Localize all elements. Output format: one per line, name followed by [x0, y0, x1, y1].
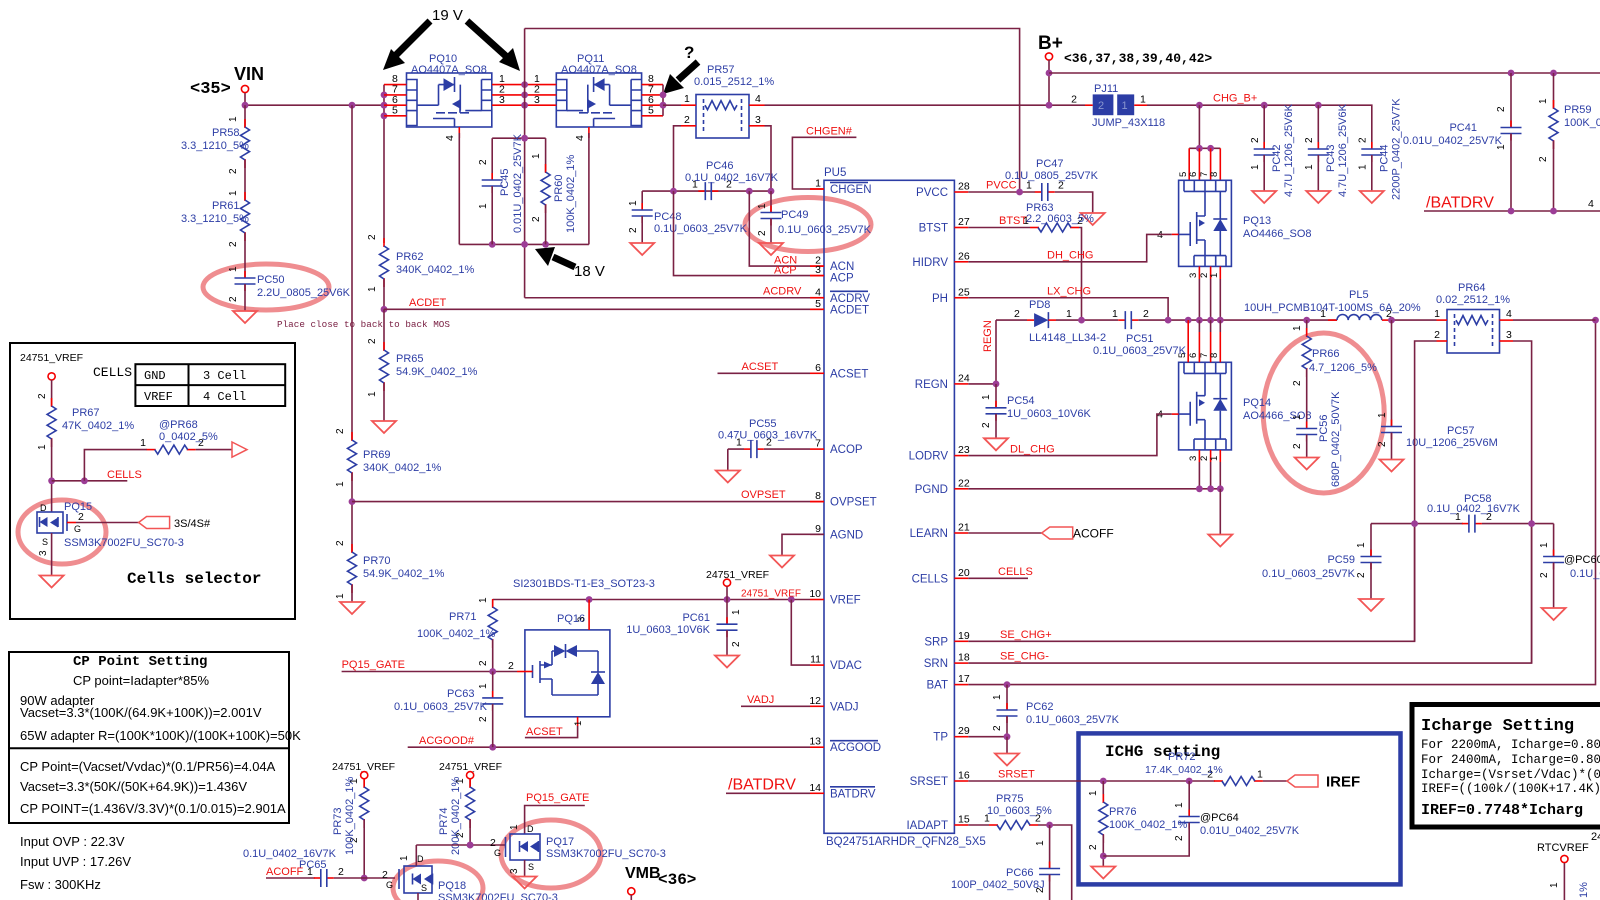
svg-text:PC41: PC41 — [1449, 122, 1477, 134]
wire PR57 pin4 to PJ11 — [765, 104, 1086, 106]
svg-text:1: 1 — [1356, 542, 1367, 548]
svg-text:21: 21 — [958, 522, 970, 534]
svg-text:PC61: PC61 — [682, 612, 710, 624]
svg-text:SRP: SRP — [924, 636, 948, 648]
svg-text:0.1U_0603_25V7K: 0.1U_0603_25V7K — [1093, 345, 1187, 357]
svg-text:1: 1 — [1292, 325, 1303, 331]
svg-text:5: 5 — [1177, 353, 1188, 358]
resistor PR66 — [1292, 320, 1377, 386]
wire PR70-gnd — [351, 585, 353, 602]
transistor PQ13 — [1157, 180, 1311, 266]
wire PQ11 to PR57 — [663, 104, 681, 106]
capacitor PC61 — [626, 600, 742, 668]
pin 25 PH — [932, 286, 970, 305]
svg-text:3S/4S#: 3S/4S# — [174, 518, 211, 530]
pin 6 ACSET — [810, 362, 868, 381]
svg-text:8: 8 — [1209, 353, 1220, 358]
svg-text:ACOFF: ACOFF — [266, 866, 304, 878]
svg-text:D: D — [40, 503, 47, 513]
wire VIN vertical — [244, 93, 246, 105]
svg-text:LX_CHG: LX_CHG — [1047, 286, 1091, 298]
svg-text:TP: TP — [933, 732, 948, 744]
svg-text:CHG_B+: CHG_B+ — [1213, 93, 1257, 105]
pin 19 SRP — [924, 630, 969, 649]
pin 4 ACDRV — [810, 286, 870, 305]
svg-text:4: 4 — [815, 286, 821, 298]
wire CELLS label — [52, 480, 128, 482]
svg-text:AO4407A_SO8: AO4407A_SO8 — [411, 64, 487, 76]
wire LEARN to ACOFF flag — [968, 527, 1113, 541]
svg-text:/BATDRV: /BATDRV — [1426, 195, 1494, 212]
svg-text:2: 2 — [1014, 308, 1020, 320]
svg-text:GND: GND — [144, 369, 166, 383]
svg-text:PR65: PR65 — [396, 353, 424, 365]
wire ACN — [749, 191, 810, 266]
resistor PR57 shunt — [681, 64, 774, 138]
capacitor PC63 — [394, 672, 503, 748]
svg-text:For 2400mA, Icharge=0.80: For 2400mA, Icharge=0.80 — [1421, 753, 1600, 767]
resistor PR73 — [332, 761, 395, 881]
svg-text:15: 15 — [958, 814, 970, 826]
svg-text:IREF=0.7748*Icharg: IREF=0.7748*Icharg — [1421, 802, 1583, 819]
svg-text:47K_0402_1%: 47K_0402_1% — [62, 420, 134, 432]
svg-text:PR75: PR75 — [996, 793, 1024, 805]
svg-text:2: 2 — [1250, 137, 1261, 143]
svg-text:100K_0402_1%: 100K_0402_1% — [417, 628, 496, 640]
svg-text:AO4466_SO8: AO4466_SO8 — [1243, 228, 1312, 240]
svg-text:0.47U_0603_16V7K: 0.47U_0603_16V7K — [718, 430, 818, 442]
svg-text:ACGOOD#: ACGOOD# — [419, 735, 475, 747]
wire PR64 pin4 to BAT vertical — [1513, 319, 1596, 321]
svg-text:LEARN: LEARN — [910, 528, 948, 540]
node 19V annotation — [383, 7, 520, 71]
node ACDET junction — [381, 306, 388, 313]
svg-text:2: 2 — [228, 296, 239, 302]
svg-text:PH: PH — [932, 293, 948, 305]
svg-text:2: 2 — [478, 716, 489, 722]
svg-text:4: 4 — [1588, 198, 1594, 210]
svg-text:1: 1 — [335, 481, 346, 487]
svg-text:PR62: PR62 — [396, 251, 424, 263]
svg-text:2: 2 — [992, 725, 1003, 731]
wire PGND to ground — [1219, 489, 1221, 534]
svg-text:For 2200mA, Icharge=0.80: For 2200mA, Icharge=0.80 — [1421, 738, 1600, 752]
wire top rail to PVCC — [525, 29, 1020, 193]
svg-text:26: 26 — [958, 250, 970, 262]
svg-text:PR60: PR60 — [553, 174, 565, 202]
svg-text:16: 16 — [958, 770, 970, 782]
wire PQ10 left bus — [383, 85, 385, 243]
wire VIN to PR69 chain — [351, 105, 353, 440]
svg-text:1: 1 — [1174, 802, 1185, 808]
svg-text:PC48: PC48 — [654, 211, 682, 223]
wire PR62-PR65 — [383, 309, 385, 350]
svg-text:0.01U_0402_25V7K: 0.01U_0402_25V7K — [1403, 135, 1503, 147]
wire PQ13 source to phase — [1188, 266, 1220, 320]
capacitor PC41 — [1403, 73, 1522, 211]
svg-text:100K_0402_1%: 100K_0402_1% — [1109, 819, 1188, 831]
capacitor PC65 — [243, 848, 395, 887]
svg-text:PR76: PR76 — [1109, 806, 1137, 818]
svg-text:340K_0402_1%: 340K_0402_1% — [363, 462, 442, 474]
svg-text:PR72: PR72 — [1168, 751, 1196, 763]
pin 1 CHGEN — [810, 178, 872, 197]
svg-text:ACP: ACP — [830, 273, 854, 285]
pin 16 SRSET — [910, 770, 970, 789]
svg-text:ACOFF: ACOFF — [1073, 527, 1114, 541]
svg-text:PR66: PR66 — [1312, 348, 1340, 360]
capacitor PC50 — [228, 266, 351, 302]
svg-text:2: 2 — [37, 393, 48, 399]
svg-text:ACDET: ACDET — [830, 304, 869, 316]
svg-text:1: 1 — [478, 597, 489, 603]
wire PR57 pin2 down — [674, 126, 682, 191]
svg-text:CELLS: CELLS — [107, 469, 142, 481]
svg-text:LODRV: LODRV — [909, 451, 949, 463]
wire VREF rail 24751_VREF — [493, 599, 810, 601]
wire PVCC — [968, 191, 1035, 193]
svg-text:ACSET: ACSET — [526, 726, 563, 738]
wire sense rail — [642, 190, 771, 192]
svg-text:PQ15_GATE: PQ15_GATE — [342, 659, 405, 671]
svg-text:PL5: PL5 — [1349, 289, 1369, 301]
svg-text:PC42: PC42 — [1271, 144, 1283, 172]
svg-text:PC62: PC62 — [1026, 701, 1054, 713]
wire BAT — [968, 320, 1595, 684]
svg-text:VREF: VREF — [830, 595, 861, 607]
wire PQ15_GATE bottom — [525, 792, 590, 834]
svg-text:100K_0402_1%: 100K_0402_1% — [344, 776, 356, 855]
svg-text:29: 29 — [958, 725, 970, 737]
svg-text:PC54: PC54 — [1007, 395, 1035, 407]
node VIN junctions — [242, 102, 249, 109]
capacitor PC45 — [478, 133, 524, 244]
svg-text:PC43: PC43 — [1325, 144, 1337, 172]
wire REGN — [968, 320, 999, 387]
wire ACDRV from center — [525, 297, 810, 299]
svg-text:DH_CHG: DH_CHG — [1047, 250, 1093, 262]
node ICHG setting box — [1079, 733, 1401, 884]
svg-text:680P_0402_50V7K: 680P_0402_50V7K — [1330, 391, 1342, 487]
svg-text:2: 2 — [338, 866, 344, 878]
resistor PR76 — [1088, 781, 1188, 879]
svg-text:2: 2 — [1071, 94, 1077, 106]
svg-text:SRSET: SRSET — [998, 769, 1035, 781]
svg-text:1: 1 — [1538, 98, 1549, 104]
ground — [233, 311, 257, 323]
svg-text:Vacset=3.3*(100K/(64.9K+100K)): Vacset=3.3*(100K/(64.9K+100K))=2.001V — [20, 705, 262, 720]
svg-text:340K_0402_1%: 340K_0402_1% — [396, 264, 475, 276]
svg-text:4: 4 — [1506, 308, 1512, 320]
wire VIN to PR58 — [244, 105, 246, 127]
svg-text:13: 13 — [809, 736, 821, 748]
svg-text:D: D — [417, 854, 424, 864]
svg-text:1: 1 — [731, 609, 742, 615]
annotation ellipse PC49 — [745, 198, 871, 252]
node 18V annotation — [535, 247, 605, 280]
wire PGND — [968, 488, 1220, 490]
svg-text:<36>: <36> — [658, 871, 696, 889]
capacitor PC47 — [1005, 158, 1105, 225]
wire PR69-PR70 — [351, 473, 353, 552]
svg-text:PC66: PC66 — [1006, 867, 1034, 879]
svg-text:100K_0402_1%: 100K_0402_1% — [565, 154, 577, 233]
transistor PQ11 — [525, 53, 663, 141]
svg-text:6: 6 — [1188, 353, 1199, 358]
svg-text:/BATDRV: /BATDRV — [728, 777, 796, 794]
svg-text:1: 1 — [1292, 414, 1303, 420]
svg-text:0.01U_0402_25V7K: 0.01U_0402_25V7K — [512, 133, 524, 233]
svg-text:3: 3 — [38, 550, 49, 556]
svg-text:1: 1 — [1549, 882, 1560, 888]
svg-text:5: 5 — [815, 298, 821, 310]
svg-text:PQ17: PQ17 — [546, 836, 574, 848]
svg-text:0.1U_0603_25V7K: 0.1U_0603_25V7K — [778, 224, 872, 236]
svg-text:CHGEN#: CHGEN# — [806, 126, 853, 138]
wire PR64 pin2 to SRP — [1415, 341, 1437, 641]
capacitor PC49 — [757, 191, 872, 243]
svg-text:10_0603_5%: 10_0603_5% — [987, 805, 1052, 817]
svg-text:1: 1 — [1377, 412, 1388, 418]
svg-text:24751_VREF: 24751_VREF — [706, 569, 769, 581]
resistor PR74 — [438, 761, 502, 855]
node ? annotation — [663, 43, 698, 94]
svg-text:2: 2 — [1143, 308, 1149, 320]
pin 18 SRN — [924, 652, 970, 671]
svg-text:CELLS: CELLS — [998, 566, 1033, 578]
svg-text:SE_CHG-: SE_CHG- — [1000, 651, 1049, 663]
svg-text:0.1U_06: 0.1U_06 — [1570, 568, 1600, 580]
svg-text:2: 2 — [228, 168, 239, 174]
svg-text:PQ15_GATE: PQ15_GATE — [526, 792, 589, 804]
svg-text:2: 2 — [1292, 380, 1303, 386]
svg-text:1: 1 — [1066, 308, 1072, 320]
svg-text:3: 3 — [509, 868, 520, 874]
svg-text:ACSET: ACSET — [742, 361, 779, 373]
resistor PR72 — [1145, 751, 1263, 786]
svg-text:Vacset=3.3*(50K/(50K+64.9K))=1: Vacset=3.3*(50K/(50K+64.9K))=1.436V — [20, 779, 247, 794]
ground — [40, 576, 64, 588]
svg-text:1: 1 — [1209, 273, 1220, 278]
resistor PR62 — [367, 234, 475, 292]
svg-text:CP Point Setting: CP Point Setting — [73, 654, 207, 670]
svg-text:IADAPT: IADAPT — [906, 820, 948, 832]
svg-text:PR58: PR58 — [212, 127, 240, 139]
svg-text:1: 1 — [757, 203, 768, 209]
svg-text:IREF=((100k/(100K+17.4K): IREF=((100k/(100K+17.4K) — [1421, 782, 1600, 796]
wire PQ15 gate to 3S/4S# flag — [76, 517, 211, 531]
svg-text:2: 2 — [531, 216, 542, 222]
svg-text:PC55: PC55 — [749, 418, 777, 430]
svg-text:1: 1 — [478, 203, 489, 209]
svg-text:3: 3 — [1188, 456, 1199, 461]
capacitor PC66 — [951, 825, 1060, 900]
svg-text:54.9K_0402_1%: 54.9K_0402_1% — [396, 366, 478, 378]
svg-text:SRN: SRN — [924, 658, 948, 670]
svg-text:2: 2 — [628, 227, 639, 233]
svg-text:1: 1 — [140, 437, 146, 449]
svg-text:PQ14: PQ14 — [1243, 397, 1271, 409]
svg-text:PR64: PR64 — [1458, 282, 1486, 294]
node CELLS table — [93, 364, 285, 406]
svg-text:3.3_1210_5%: 3.3_1210_5% — [181, 213, 249, 225]
node cells selector frame — [10, 343, 295, 619]
svg-text:Input OVP : 22.3V: Input OVP : 22.3V — [20, 834, 125, 849]
svg-text:24751_VREF: 24751_VREF — [20, 352, 83, 364]
jumper PJ11 — [1071, 83, 1165, 129]
svg-text:1: 1 — [367, 286, 378, 292]
svg-text:3: 3 — [499, 94, 505, 106]
svg-text:1: 1 — [981, 394, 992, 400]
svg-text:PR70: PR70 — [363, 555, 391, 567]
svg-text:CP point=Iadapter*85%: CP point=Iadapter*85% — [73, 673, 209, 688]
svg-text:1: 1 — [1035, 840, 1046, 846]
inductor PL5 — [1244, 289, 1421, 320]
svg-text:VIN: VIN — [234, 64, 264, 84]
svg-text:2: 2 — [335, 428, 346, 434]
svg-text:1: 1 — [1434, 308, 1440, 320]
svg-text:1: 1 — [1112, 308, 1118, 320]
resistor PR71 — [417, 597, 497, 666]
transistor PQ10 — [384, 53, 525, 141]
resistor PR65 — [367, 338, 478, 397]
svg-text:1: 1 — [367, 391, 378, 397]
svg-text:2: 2 — [228, 241, 239, 247]
svg-text:4 Cell: 4 Cell — [203, 390, 246, 404]
svg-text:1: 1 — [1257, 769, 1263, 781]
node Icharge Setting box — [1412, 705, 1600, 828]
svg-text:0.1U_0402_16V7K: 0.1U_0402_16V7K — [1427, 503, 1521, 515]
svg-text:12: 12 — [809, 695, 821, 707]
pin 21 LEARN — [910, 522, 970, 541]
svg-text:BAT: BAT — [926, 680, 948, 692]
IC PU5 BQ24751A charger controller — [824, 167, 986, 848]
resistor PR63 — [968, 202, 1094, 232]
svg-text:OVPSET: OVPSET — [741, 489, 786, 501]
svg-text:SRSET: SRSET — [910, 776, 948, 788]
svg-text:200K_0402_1%: 200K_0402_1% — [450, 776, 462, 855]
svg-text:2: 2 — [1539, 572, 1550, 578]
capacitor PC44 — [1358, 98, 1403, 203]
svg-text:Cells selector: Cells selector — [127, 570, 261, 588]
svg-text:0_0402_5%: 0_0402_5% — [159, 431, 218, 443]
resistor PR58 — [181, 116, 250, 174]
svg-text:14: 14 — [809, 782, 821, 794]
capacitor PC60 — [1539, 524, 1600, 620]
svg-text:PC59: PC59 — [1327, 554, 1355, 566]
svg-text:PC45: PC45 — [499, 168, 511, 196]
wire PR61-PC50 — [244, 233, 246, 278]
pin 23 LODRV — [909, 444, 970, 463]
transistor PQ17 — [490, 824, 666, 889]
pin 8 OVPSET — [810, 490, 877, 509]
svg-text:4: 4 — [755, 93, 761, 105]
pin 27 BTST — [919, 216, 970, 235]
pin 29 TP — [933, 725, 970, 744]
transistor PQ16 — [508, 578, 655, 738]
svg-text:3: 3 — [755, 114, 761, 126]
svg-text:2.2U_0805_25V6K: 2.2U_0805_25V6K — [257, 287, 351, 299]
diode PD8 — [996, 299, 1118, 344]
svg-text:PR67: PR67 — [72, 407, 100, 419]
svg-text:0.02_2512_1%: 0.02_2512_1% — [1436, 294, 1510, 306]
svg-text:2.2_0603_5%: 2.2_0603_5% — [1026, 213, 1094, 225]
svg-text:Fsw : 300KHz: Fsw : 300KHz — [20, 877, 101, 892]
wire AGND — [770, 534, 824, 567]
svg-text:B+: B+ — [1038, 33, 1063, 54]
svg-text:G: G — [494, 848, 501, 858]
svg-text:ACDET: ACDET — [409, 297, 447, 309]
svg-text:0.1U_0603_25V7K: 0.1U_0603_25V7K — [1262, 568, 1356, 580]
svg-text:PC44: PC44 — [1379, 144, 1391, 172]
svg-text:1: 1 — [1539, 542, 1550, 548]
svg-text:3: 3 — [1188, 273, 1199, 278]
pin 17 BAT — [926, 673, 969, 692]
wire PR58-PR61 — [244, 160, 246, 200]
svg-text:1: 1 — [478, 683, 489, 689]
svg-text:1: 1 — [228, 190, 239, 196]
svg-text:2200P_0402_25V7K: 2200P_0402_25V7K — [1391, 98, 1403, 200]
svg-text:2: 2 — [1434, 329, 1440, 341]
svg-text:3 Cell: 3 Cell — [203, 369, 246, 383]
svg-text:PD8: PD8 — [1029, 299, 1050, 311]
svg-text:5: 5 — [648, 105, 654, 117]
wire PR67 to CELLS — [51, 439, 53, 512]
svg-text:PQ15: PQ15 — [64, 501, 92, 513]
svg-text:4.7U_1206_25V6K: 4.7U_1206_25V6K — [1337, 103, 1349, 197]
svg-text:OVPSET: OVPSET — [830, 497, 877, 509]
svg-text:24751_VREF: 24751_VREF — [741, 589, 801, 600]
svg-text:CELLS: CELLS — [912, 573, 949, 585]
svg-text:G: G — [386, 880, 393, 890]
wire PQ15 source to gnd — [51, 533, 53, 575]
transistor PQ14 — [1157, 320, 1311, 450]
svg-text:1: 1 — [307, 866, 313, 878]
svg-text:PU5: PU5 — [824, 167, 846, 179]
svg-text:0.1U_0603_25V7K: 0.1U_0603_25V7K — [394, 701, 488, 713]
wire PR65-gnd — [383, 383, 385, 421]
resistor PR64 shunt — [1434, 282, 1513, 353]
node VIN terminal — [190, 64, 264, 99]
svg-text:2: 2 — [1356, 572, 1367, 578]
wire ACDET — [384, 308, 810, 310]
svg-text:VDAC: VDAC — [830, 660, 862, 672]
resistor PR75 — [968, 793, 1052, 830]
pin 28 PVCC — [916, 181, 970, 200]
svg-text:HIDRV: HIDRV — [912, 257, 948, 269]
svg-text:G: G — [74, 524, 81, 534]
wire PR57 pin3 down — [765, 126, 772, 191]
svg-text:1: 1 — [509, 824, 520, 830]
svg-text:Place close to back to back MO: Place close to back to back MOS — [277, 319, 450, 330]
svg-text:AO4407A_SO8: AO4407A_SO8 — [561, 64, 637, 76]
svg-text:1: 1 — [815, 178, 821, 190]
svg-text:PR74: PR74 — [438, 807, 450, 835]
wire PQ13 drain feed — [1178, 105, 1220, 180]
pin 22 PGND — [915, 477, 970, 496]
pin 26 HIDRV — [912, 250, 969, 269]
svg-text:SSM3K7002FU_SC70-3: SSM3K7002FU_SC70-3 — [64, 537, 184, 549]
pin 14 BATDRV — [809, 782, 876, 801]
svg-text:1%: 1% — [1578, 882, 1590, 898]
ground — [340, 602, 364, 614]
ground — [630, 243, 654, 255]
svg-text:65W adapter R=(100K*100K)/(10: 65W adapter R=(100K*100K)/(100K+100K)=50… — [20, 728, 301, 743]
pin 7 ACOP — [810, 438, 863, 457]
svg-text:2: 2 — [1496, 106, 1507, 112]
svg-text:17: 17 — [958, 673, 970, 685]
svg-text:S: S — [528, 862, 534, 872]
